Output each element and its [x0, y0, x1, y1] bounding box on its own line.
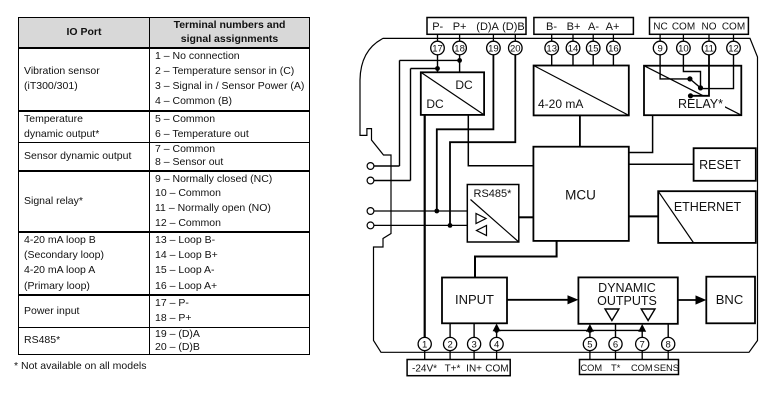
junction dot wire19 RS485 A — [434, 209, 439, 214]
wire terminal 17 to DC/DC and side pin 2 — [374, 55, 438, 181]
terminal 16 — [607, 41, 621, 55]
terminal 19 — [487, 41, 501, 55]
wire terminal 3 to INPUT — [473, 323, 475, 337]
svg-text:MCU: MCU — [565, 188, 596, 203]
svg-text:16: 16 — [608, 44, 619, 55]
wire stubs label boxes to terminals 17-20 13-16 9-12 — [438, 34, 734, 41]
enclosure outline — [360, 38, 758, 352]
svg-text:5: 5 — [587, 340, 592, 351]
svg-text:INPUT: INPUT — [455, 292, 494, 307]
junction dot COM rail at terminal 4 — [494, 328, 499, 333]
footnote — [14, 360, 147, 372]
DC/DC converter block — [421, 72, 484, 115]
terminal 15 — [586, 41, 600, 55]
terminal 10 — [677, 41, 691, 55]
svg-text:T*: T* — [611, 363, 621, 373]
INPUT block — [442, 278, 507, 324]
svg-text:1: 1 — [422, 340, 427, 351]
side connector pin 1 — [367, 163, 374, 170]
relay pivot dot — [698, 85, 703, 90]
stubs terminals 1-8 to bottom label boxes — [425, 351, 669, 360]
svg-text:8: 8 — [666, 340, 671, 351]
wire terminal 11 to relay NO contact — [691, 55, 710, 96]
svg-text:2: 2 — [447, 340, 452, 351]
wire terminal 2 to INPUT — [449, 323, 451, 337]
svg-text:4-20 mA: 4-20 mA — [538, 97, 583, 111]
side connector pin 3 — [367, 208, 374, 215]
junction dot wire20 RS485 B — [448, 223, 453, 228]
svg-text:17: 17 — [432, 44, 443, 55]
arrow INPUT to DYNAMIC OUTPUTS — [507, 295, 578, 304]
svg-text:6: 6 — [613, 340, 618, 351]
svg-text:B+: B+ — [567, 21, 581, 33]
terminal 5 — [583, 337, 596, 350]
svg-text:19: 19 — [488, 44, 499, 55]
terminal 2 — [444, 337, 457, 350]
terminal 9 — [653, 41, 667, 55]
relay NC contact dot — [687, 76, 692, 81]
svg-text:T+*: T+* — [445, 364, 461, 375]
svg-text:13: 13 — [546, 44, 557, 55]
svg-text:14: 14 — [568, 44, 579, 55]
wire DC/DC to terminal 1 (-24V) — [424, 115, 426, 338]
relay block — [644, 66, 741, 116]
bottom label box -24V* T+* IN+ COM — [407, 360, 510, 376]
RS485 block — [467, 185, 519, 243]
wire terminal 10 to relay common pivot — [683, 55, 700, 88]
RESET block — [694, 148, 756, 181]
svg-text:IN+: IN+ — [466, 364, 482, 375]
wire terminal 5 to DYNAMIC OUTPUTS with arrow — [586, 324, 594, 337]
svg-text:(D)A: (D)A — [476, 21, 499, 33]
svg-text:P-: P- — [432, 21, 443, 33]
wire terminal 19 to RS485 line A — [437, 55, 494, 211]
svg-text:RESET: RESET — [699, 158, 741, 172]
MCU block — [533, 147, 628, 241]
wire DC/DC output to MCU — [468, 115, 533, 166]
terminal 3 — [468, 337, 481, 350]
arrow DYNAMIC OUTPUTS to BNC — [678, 295, 707, 304]
svg-text:ETHERNET: ETHERNET — [674, 200, 742, 214]
svg-text:DYNAMIC: DYNAMIC — [598, 281, 656, 295]
terminal 18 — [453, 41, 467, 55]
svg-text:RS485*: RS485* — [474, 188, 513, 200]
terminal 8 — [662, 337, 675, 350]
svg-text:-24V*: -24V* — [412, 364, 437, 375]
terminal 20 — [509, 41, 523, 55]
terminal label box B- B+ A- A+ — [534, 18, 634, 35]
terminal 12 — [727, 41, 741, 55]
svg-text:COM: COM — [485, 364, 508, 375]
svg-text:NC: NC — [653, 22, 667, 33]
junction dot COM rail at terminal 5 — [588, 328, 593, 333]
svg-text:COM: COM — [580, 363, 602, 373]
terminal 11 — [702, 41, 716, 55]
wire terminal 4 to INPUT with arrow — [493, 324, 501, 338]
svg-text:COM: COM — [631, 363, 653, 373]
wire side pin 4 to RS485 input B — [374, 224, 467, 226]
svg-text:12: 12 — [728, 44, 739, 55]
svg-text:11: 11 — [704, 44, 714, 55]
wire MCU to relay — [629, 115, 653, 152]
svg-text:OUTPUTS: OUTPUTS — [597, 294, 657, 308]
terminal 14 — [566, 41, 580, 55]
wire terminal 8 to DYNAMIC OUTPUTS — [667, 324, 669, 338]
terminal 13 — [545, 41, 559, 55]
wire side pin 3 to RS485 input A — [374, 210, 467, 212]
wire terminal 18 to DC/DC and side pin 1 — [374, 55, 460, 166]
wire 4-20 mA to MCU — [579, 115, 581, 146]
wire terminal 6 to DYNAMIC OUTPUTS — [615, 324, 617, 338]
svg-text:DC: DC — [426, 97, 444, 111]
relay lever — [690, 79, 701, 88]
bottom label box COM T* COM SENS — [580, 360, 679, 375]
IO port table — [18, 17, 310, 355]
terminal label box P- P+ (D)A (D)B — [427, 18, 526, 35]
DYNAMIC OUTPUTS block — [578, 277, 677, 323]
svg-text:4: 4 — [494, 340, 499, 351]
terminal 1 — [418, 337, 431, 350]
terminal 7 — [636, 337, 649, 350]
svg-text:DC: DC — [455, 78, 473, 92]
relay NO contact dot — [688, 93, 693, 98]
svg-text:BNC: BNC — [716, 292, 743, 307]
svg-text:RELAY*: RELAY* — [678, 97, 723, 111]
svg-text:COM: COM — [672, 22, 695, 33]
svg-text:7: 7 — [640, 340, 645, 351]
4-20 mA block — [534, 66, 629, 116]
svg-text:3: 3 — [471, 340, 476, 351]
terminal label box NC COM NO COM — [650, 18, 749, 35]
svg-text:COM: COM — [722, 22, 745, 33]
wire terminal 20 to RS485 line B — [450, 55, 515, 226]
COM rail terminal 4 to terminal 7 — [497, 329, 643, 331]
wire MCU to RESET — [629, 163, 694, 165]
svg-text:A+: A+ — [606, 21, 620, 33]
wire RS485 to MCU — [519, 216, 534, 218]
wire terminal 7 to DYNAMIC OUTPUTS with arrow — [638, 324, 646, 337]
terminal 6 — [609, 337, 622, 350]
svg-text:15: 15 — [588, 44, 599, 55]
svg-text:9: 9 — [657, 44, 662, 55]
svg-text:B-: B- — [546, 21, 557, 33]
terminal 4 — [490, 337, 503, 350]
wires terminals 13-16 to 4-20 mA block — [552, 55, 614, 66]
side connector pin 2 — [367, 177, 374, 184]
svg-text:NO: NO — [702, 22, 717, 33]
svg-text:20: 20 — [510, 44, 521, 55]
svg-text:A-: A- — [588, 21, 599, 33]
wire MCU to INPUT — [475, 241, 557, 278]
wire terminal 9 to relay NC contact — [660, 55, 690, 79]
side connector pin 4 — [367, 222, 374, 229]
junction dot wire17 — [435, 66, 440, 71]
wire MCU to ETHERNET — [629, 215, 658, 217]
svg-text:18: 18 — [454, 44, 465, 55]
svg-text:SENS: SENS — [654, 363, 679, 373]
ETHERNET block — [658, 191, 756, 243]
terminal 17 — [431, 41, 445, 55]
BNC block — [706, 277, 755, 324]
svg-text:P+: P+ — [453, 21, 467, 33]
svg-text:(D)B: (D)B — [502, 21, 525, 33]
junction dot wire18 — [457, 58, 462, 63]
wire terminal 12 to relay common pivot — [701, 55, 734, 89]
svg-text:10: 10 — [678, 44, 689, 55]
